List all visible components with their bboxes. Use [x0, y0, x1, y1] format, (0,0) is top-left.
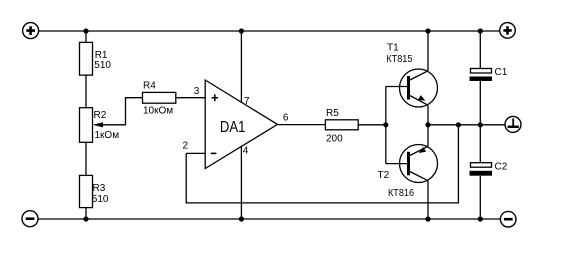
terminal +V right: [500, 23, 516, 39]
svg-text:R3: R3: [93, 183, 106, 194]
svg-text:4: 4: [243, 145, 249, 156]
op-amp DA1: [205, 80, 277, 169]
wire R2-R3: [85, 142, 87, 175]
wire pin2: [186, 152, 205, 154]
svg-text:200: 200: [326, 134, 343, 145]
wire C1 bottom lead: [479, 81, 481, 125]
svg-text:КТ816: КТ816: [388, 188, 414, 199]
terminal -V right: [500, 211, 516, 227]
svg-text:T1: T1: [387, 43, 399, 54]
junction feedback output rail: [456, 122, 461, 127]
wire T1 emitter: [427, 105, 429, 125]
junction pin4 bottom rail: [239, 216, 244, 221]
wire C2 bottom lead: [479, 176, 481, 219]
wire R1 top lead: [85, 31, 87, 42]
junction C1-C2 middle rail: [478, 122, 483, 127]
junction T1 collector top rail: [425, 28, 430, 33]
junction T2 collector bottom rail: [425, 216, 430, 221]
wire wiper to R4: [101, 98, 143, 125]
svg-text:DA1: DA1: [220, 119, 246, 136]
svg-text:C1: C1: [495, 67, 508, 78]
svg-text:510: 510: [92, 194, 109, 205]
wire R3 bottom lead: [85, 208, 87, 219]
junction base node: [383, 122, 388, 127]
wire R4 to pin3: [176, 97, 205, 99]
wire pin4: [240, 146, 242, 219]
resistor R5: [325, 108, 358, 144]
junction R1 top rail: [83, 28, 88, 33]
svg-text:6: 6: [283, 113, 289, 124]
svg-text:R5: R5: [326, 108, 339, 119]
wire C1 top lead: [479, 31, 481, 69]
terminal common output (earth) right middle: [505, 116, 521, 132]
terminal +V left: [23, 23, 39, 39]
junction R3 bottom rail: [83, 216, 88, 221]
svg-text:1кОм: 1кОм: [95, 130, 120, 141]
wire R1-R2: [85, 75, 87, 108]
junction emitters output node: [425, 122, 430, 127]
junction C1 top rail: [478, 28, 483, 33]
svg-text:3: 3: [194, 86, 200, 97]
transistor T1 KT815: [386, 43, 437, 107]
capacitor C2: [470, 162, 508, 176]
svg-text:7: 7: [244, 96, 250, 107]
wire top rail: [39, 30, 500, 32]
wire pin7: [240, 31, 242, 103]
svg-text:10кОм: 10кОм: [143, 106, 173, 117]
svg-text:510: 510: [94, 60, 111, 71]
resistor R4: [143, 81, 176, 117]
wire output middle rail: [428, 124, 505, 126]
svg-text:2: 2: [183, 141, 189, 152]
svg-text:R2: R2: [94, 110, 107, 121]
wire T1 base lead: [386, 86, 407, 88]
capacitor C1: [470, 67, 508, 81]
junction C2 bottom rail: [478, 216, 483, 221]
wire T2 collector: [427, 181, 429, 219]
svg-text:T2: T2: [378, 170, 390, 181]
svg-text:C2: C2: [495, 162, 508, 173]
svg-text:КТ815: КТ815: [386, 54, 412, 65]
wire pin6 output: [278, 124, 326, 126]
resistor R3: [80, 175, 109, 207]
resistor R1: [80, 42, 112, 75]
wire C2 top lead: [479, 125, 481, 163]
transistor T2 KT816: [378, 145, 438, 200]
wire base junction vertical: [385, 87, 387, 164]
junction pin7 top rail: [239, 28, 244, 33]
svg-text:R4: R4: [143, 81, 156, 92]
terminal -V left: [22, 211, 38, 227]
wire feedback loop: [186, 125, 458, 203]
potentiometer R2: [80, 108, 120, 143]
wire R5 to base node: [358, 124, 386, 126]
wire T2 emitter: [427, 125, 429, 147]
wire T1 collector: [427, 31, 429, 71]
wire bottom rail: [38, 218, 500, 220]
wire T2 base lead: [386, 163, 407, 165]
